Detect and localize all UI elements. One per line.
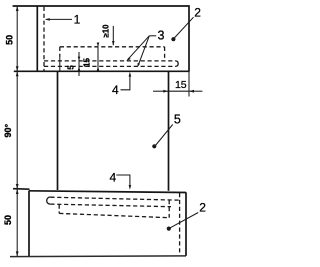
svg-text:2: 2 — [194, 5, 201, 19]
svg-text:15: 15 — [82, 58, 91, 67]
svg-text:1: 1 — [74, 13, 81, 27]
svg-text:4: 4 — [112, 83, 119, 97]
svg-text:15: 15 — [175, 79, 187, 91]
svg-text:50: 50 — [5, 35, 15, 45]
svg-text:90°: 90° — [3, 124, 13, 138]
svg-text:50: 50 — [3, 215, 13, 225]
svg-text:≥10: ≥10 — [101, 24, 110, 38]
svg-text:4: 4 — [110, 171, 117, 185]
svg-text:2: 2 — [199, 201, 206, 215]
svg-text:5: 5 — [174, 112, 181, 126]
svg-text:5: 5 — [66, 65, 75, 70]
svg-text:3: 3 — [158, 29, 165, 43]
